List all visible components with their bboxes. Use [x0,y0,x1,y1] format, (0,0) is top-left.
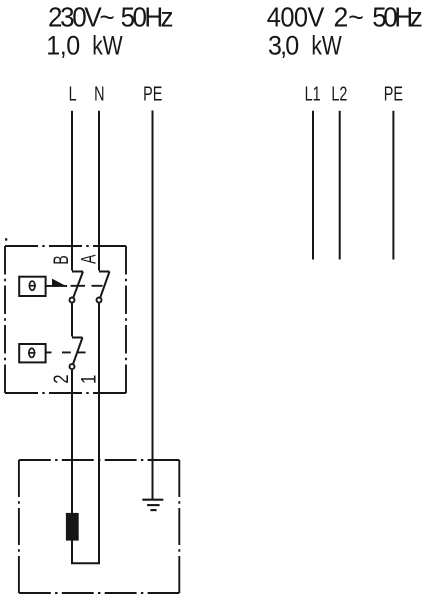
svg-text:1,0: 1,0 [46,30,80,61]
svg-text:PE: PE [384,82,403,105]
svg-text:230V~: 230V~ [48,2,114,33]
svg-text:kW: kW [92,31,123,61]
svg-text:L1: L1 [305,82,321,105]
svg-text:3,0: 3,0 [268,30,299,61]
svg-text:50Hz: 50Hz [121,2,173,33]
svg-text:1: 1 [78,375,101,384]
svg-text:L: L [69,82,77,105]
svg-text:kW: kW [311,31,342,61]
svg-text:A: A [76,254,100,264]
svg-text:2~: 2~ [334,1,364,33]
svg-text:400V: 400V [267,1,325,32]
svg-text:L2: L2 [331,82,347,105]
svg-text:2: 2 [50,374,73,383]
svg-text:N: N [94,82,104,105]
svg-text:B: B [49,255,73,264]
svg-text:50Hz: 50Hz [372,2,422,33]
svg-text:PE: PE [143,82,162,105]
